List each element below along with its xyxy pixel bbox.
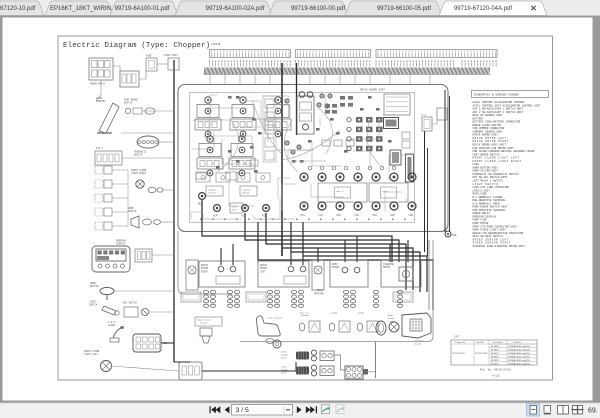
svg-text:STEERING FUSE-STEERING MOTOR U: STEERING FUSE-STEERING MOTOR UNIT bbox=[473, 245, 526, 248]
svg-text:BUZZER: BUZZER bbox=[301, 314, 309, 317]
svg-text:MOTOR: MOTOR bbox=[383, 266, 391, 269]
svg-text:FUSE: FUSE bbox=[232, 209, 238, 212]
svg-text:FA2: FA2 bbox=[355, 214, 360, 217]
svg-text:FUSE: FUSE bbox=[421, 114, 427, 117]
svg-text:P32: P32 bbox=[337, 214, 342, 217]
svg-text:LIZARD: LIZARD bbox=[330, 312, 338, 315]
svg-text:ETB6A-65011-up(4KV): ETB6A-65011-up(4KV) bbox=[509, 348, 531, 351]
svg-text:99719-6A100-02A.pdf: 99719-6A100-02A.pdf bbox=[206, 6, 265, 12]
svg-text:SCHEMATIC & WIRING LEGEND: SCHEMATIC & WIRING LEGEND bbox=[474, 94, 519, 97]
svg-text:LEVER: LEVER bbox=[108, 324, 116, 327]
svg-text:CON: CON bbox=[452, 234, 457, 237]
svg-text:67120-10.pdf: 67120-10.pdf bbox=[0, 6, 36, 12]
svg-text:99719-67120: 99719-67120 bbox=[453, 353, 466, 355]
svg-text:99719-66100-05.pdf: 99719-66100-05.pdf bbox=[377, 6, 431, 12]
svg-text:99719-67120-04A.pdf: 99719-67120-04A.pdf bbox=[454, 6, 512, 12]
svg-text:99719-66100-00.pdf: 99719-66100-00.pdf bbox=[291, 6, 345, 12]
svg-text:SENSOR: SENSOR bbox=[414, 342, 422, 345]
svg-text:ETB6A-65011-up(4KV): ETB6A-65011-up(4KV) bbox=[509, 345, 531, 348]
svg-text:START ASSY: START ASSY bbox=[164, 54, 178, 57]
svg-text:EP16KT_18KT_WIRIN...: EP16KT_18KT_WIRIN... bbox=[50, 6, 116, 12]
svg-text:SWITCH: SWITCH bbox=[124, 101, 133, 104]
svg-text:SWITCH: SWITCH bbox=[128, 210, 137, 213]
svg-text:EP20KT: EP20KT bbox=[491, 360, 499, 362]
svg-text:LPS 2: LPS 2 bbox=[96, 147, 104, 150]
svg-text:A2M: A2M bbox=[213, 215, 218, 218]
svg-text:ETB6A-75011-up(4KV): ETB6A-75011-up(4KV) bbox=[509, 359, 531, 362]
svg-text:99719-6A100-01.pdf: 99719-6A100-01.pdf bbox=[115, 6, 170, 12]
svg-text:3 / 5: 3 / 5 bbox=[236, 407, 249, 414]
svg-text:A1M: A1M bbox=[391, 214, 396, 217]
svg-text:MOTOR: MOTOR bbox=[332, 266, 340, 269]
svg-text:PA1: PA1 bbox=[301, 214, 306, 217]
svg-text:EP16KT: EP16KT bbox=[491, 346, 499, 348]
svg-text:LIGHT RIGHT: LIGHT RIGHT bbox=[131, 172, 147, 175]
svg-text:POWER RELAY: POWER RELAY bbox=[90, 83, 106, 86]
svg-text:Serial No.: Serial No. bbox=[513, 341, 522, 344]
svg-text:SENSOR: SENSOR bbox=[208, 192, 216, 195]
svg-text:Truck Model: Truck Model bbox=[492, 341, 503, 344]
svg-text:LIGHT LEFT: LIGHT LEFT bbox=[84, 353, 98, 356]
svg-text:Diagram No.: Diagram No. bbox=[455, 341, 466, 344]
svg-text:FUSE: FUSE bbox=[146, 55, 152, 58]
svg-text:RIGHT: RIGHT bbox=[281, 371, 288, 374]
svg-text:SWITCH: SWITCH bbox=[200, 321, 208, 324]
svg-text:RIGHT: RIGHT bbox=[201, 270, 209, 273]
svg-text:DISPLAY: DISPLAY bbox=[116, 242, 126, 245]
svg-text:LINE: LINE bbox=[203, 136, 209, 139]
svg-text:LIGHT: LIGHT bbox=[388, 320, 395, 323]
svg-text:FRONT: FRONT bbox=[281, 356, 288, 359]
svg-text:EP20KT: EP20KT bbox=[491, 363, 499, 365]
svg-text:CAT: CAT bbox=[454, 336, 459, 339]
svg-text:EP18KT: EP18KT bbox=[491, 349, 499, 351]
svg-text:SPARE: SPARE bbox=[358, 312, 365, 315]
svg-text:ETB6A-70011-up(4KV): ETB6A-70011-up(4KV) bbox=[509, 355, 531, 358]
svg-text:SWITCH: SWITCH bbox=[134, 153, 143, 156]
svg-text:FA1: FA1 bbox=[319, 214, 324, 217]
svg-text:SWITCH: SWITCH bbox=[89, 303, 98, 306]
svg-text:LA61XB: LA61XB bbox=[211, 43, 221, 46]
svg-text:DRV 2: DRV 2 bbox=[383, 190, 390, 193]
svg-text:SENSOR: SENSOR bbox=[242, 192, 250, 195]
svg-text:BUTTON: BUTTON bbox=[90, 285, 99, 288]
svg-text:ETB6A-70011-up(4KV): ETB6A-70011-up(4KV) bbox=[509, 352, 531, 355]
svg-text:DRV 1: DRV 1 bbox=[337, 190, 344, 193]
svg-text:FRONT FLOOR LIGHT RIGHT: FRONT FLOOR LIGHT RIGHT bbox=[473, 160, 522, 163]
svg-text:OPTIONS: OPTIONS bbox=[314, 292, 324, 295]
svg-text:99719-67120: 99719-67120 bbox=[475, 353, 488, 355]
svg-text:PA2: PA2 bbox=[373, 214, 378, 217]
svg-text:EP16KT: EP16KT bbox=[491, 353, 499, 355]
svg-text:CONTROL: CONTROL bbox=[96, 100, 106, 103]
svg-text:R CTR: R CTR bbox=[273, 136, 280, 139]
svg-text:4-128: 4-128 bbox=[492, 375, 500, 378]
svg-text:Used No.: Used No. bbox=[476, 342, 484, 344]
svg-text:Electric Diagram (Type: Choppe: Electric Diagram (Type: Chopper) bbox=[63, 42, 210, 50]
svg-text:EP18KT: EP18KT bbox=[491, 356, 499, 358]
svg-text:CON: CON bbox=[409, 214, 414, 217]
svg-text:KEY SWITCH: KEY SWITCH bbox=[123, 302, 137, 305]
svg-text:LEFT: LEFT bbox=[260, 270, 266, 273]
svg-text:DRIVE BOARD ASSY: DRIVE BOARD ASSY bbox=[360, 89, 385, 92]
svg-text:SEAT SWITCH: SEAT SWITCH bbox=[268, 317, 282, 320]
svg-text:Pub. No. 99719-67120: Pub. No. 99719-67120 bbox=[480, 368, 512, 372]
svg-text:ETB6A-80011-up(4KV): ETB6A-80011-up(4KV) bbox=[509, 362, 531, 365]
svg-text:69.: 69. bbox=[588, 408, 598, 415]
